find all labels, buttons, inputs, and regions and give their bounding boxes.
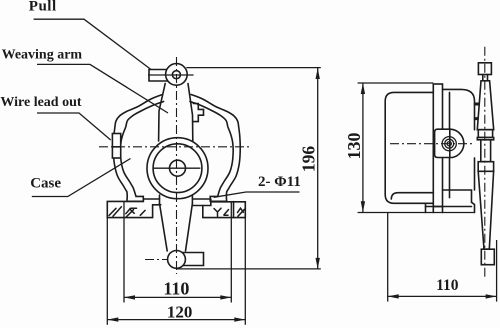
main circle outer <box>147 138 208 199</box>
boss circle middle <box>445 139 454 148</box>
base line <box>358 212 475 214</box>
top knob <box>478 63 491 75</box>
svg-text:Case: Case <box>30 176 61 192</box>
right foot hatch <box>214 208 245 216</box>
horizontal centerline case <box>99 146 252 148</box>
dim 110 front <box>123 202 125 303</box>
arm column below circle <box>159 195 161 204</box>
svg-text:Weaving arm: Weaving arm <box>2 47 83 62</box>
case outer profile <box>113 95 162 202</box>
right foot plate <box>203 199 246 218</box>
tapered rod upper <box>477 81 493 130</box>
boss circle outer <box>442 137 456 151</box>
pivot bracket rect <box>149 70 170 82</box>
small circle crosshair <box>153 167 201 169</box>
lower taper arm <box>160 204 168 252</box>
arm centerline <box>484 47 486 277</box>
right foot slot edge <box>192 202 210 206</box>
dim 196 <box>186 67 320 69</box>
case outer profile right <box>191 95 240 202</box>
block A <box>478 130 492 138</box>
side step below body <box>425 203 427 212</box>
main circle middle <box>153 144 202 193</box>
wire lead out block <box>112 134 120 159</box>
vertical centerline <box>176 57 178 274</box>
weaving arm body <box>159 84 166 142</box>
stem <box>483 75 488 81</box>
left foot plate <box>107 199 161 218</box>
svg-text:110: 110 <box>436 277 459 294</box>
mounting flange plate <box>433 84 442 207</box>
bottom knob <box>481 249 494 265</box>
T bar plate <box>477 138 493 140</box>
svg-text:120: 120 <box>167 303 193 322</box>
lower right box <box>443 190 475 213</box>
bottom pivot circle <box>168 251 186 269</box>
bottom pivot crosshair <box>145 259 186 261</box>
plate line through boss <box>449 129 451 157</box>
right tab on arm <box>193 104 203 122</box>
svg-text:Wire lead out: Wire lead out <box>0 95 81 110</box>
side body <box>385 92 433 203</box>
side body inner bottom line <box>391 193 433 199</box>
boss circle inner <box>447 142 451 146</box>
dim 120 front <box>106 218 108 325</box>
case inner wall left <box>120 102 163 202</box>
boss crosshair <box>390 143 472 145</box>
svg-text:Pull: Pull <box>29 0 57 15</box>
svg-text:110: 110 <box>163 279 189 299</box>
block C <box>478 162 493 172</box>
flange bottom ledge <box>426 206 472 208</box>
dim 110 side <box>387 212 389 301</box>
bottom pivot rect <box>180 253 204 266</box>
terminal box right edge lower <box>474 158 476 190</box>
terminal box <box>443 89 475 129</box>
column B <box>481 140 491 162</box>
pivot crosshair <box>148 74 194 76</box>
svg-text:130: 130 <box>344 133 364 160</box>
flange feet to base <box>433 207 442 213</box>
svg-text:2- Φ11: 2- Φ11 <box>258 174 301 190</box>
left foot hatch <box>109 207 145 217</box>
dim 130 <box>358 82 434 84</box>
pivot circle <box>166 64 188 86</box>
boss housing <box>435 129 464 157</box>
svg-text:196: 196 <box>299 146 319 173</box>
pivot inner circle <box>172 71 180 79</box>
bracket stubs to arm <box>475 103 480 119</box>
case bottom opening edge left <box>143 198 159 200</box>
inner plate line <box>449 92 451 197</box>
right foot hole line <box>233 202 235 218</box>
case inner wall right <box>190 102 233 202</box>
wire block midline <box>112 146 120 148</box>
case bottom opening edge right <box>193 198 211 200</box>
tapered rod lower <box>478 171 493 249</box>
main circle small <box>170 160 186 176</box>
